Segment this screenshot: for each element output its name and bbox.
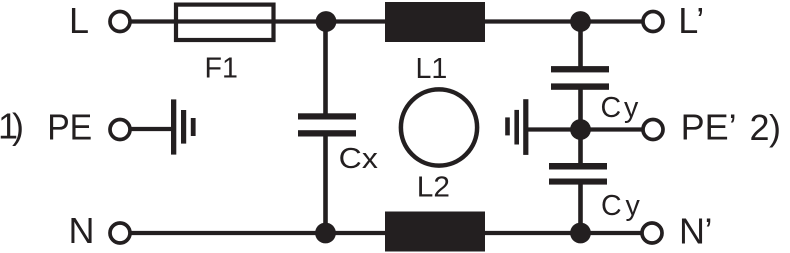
inductor winding L1 bbox=[385, 2, 485, 42]
junction bottom right bbox=[570, 223, 591, 244]
svg-text:): ) bbox=[12, 106, 24, 147]
capacitor Cy lower bbox=[549, 163, 607, 185]
wire Cy branch upper bbox=[578, 22, 583, 68]
wire Cy branch middle bbox=[578, 89, 583, 164]
wire Cx branch lower bbox=[323, 136, 328, 233]
svg-text:y: y bbox=[624, 92, 639, 124]
choke core bbox=[401, 89, 477, 165]
svg-text:N: N bbox=[69, 210, 95, 251]
junction top left bbox=[316, 11, 337, 32]
svg-text:L1: L1 bbox=[416, 53, 448, 85]
terminal N' bbox=[642, 223, 662, 243]
svg-text:): ) bbox=[769, 107, 781, 148]
svg-text:C: C bbox=[601, 190, 622, 222]
svg-text:L’: L’ bbox=[678, 0, 704, 41]
chassis ground left bbox=[171, 99, 196, 154]
junction top right bbox=[570, 11, 591, 32]
terminal PE' bbox=[643, 120, 663, 140]
svg-text:L: L bbox=[69, 0, 89, 41]
junction bottom left bbox=[315, 223, 336, 244]
wire top rail L to L' bbox=[130, 19, 643, 23]
svg-text:y: y bbox=[626, 190, 641, 222]
capacitor Cx bbox=[298, 113, 356, 136]
svg-text:Cx: Cx bbox=[339, 143, 378, 175]
chassis ground right bbox=[505, 99, 528, 155]
svg-text:PE: PE bbox=[47, 106, 92, 147]
wire Cx branch upper bbox=[323, 22, 328, 115]
wire PE stub bbox=[130, 127, 173, 131]
svg-text:’: ’ bbox=[705, 211, 713, 252]
wire Cy branch lower bbox=[578, 184, 583, 233]
svg-text:PE’: PE’ bbox=[681, 107, 737, 148]
fuse F1 bbox=[176, 5, 274, 40]
terminal L' bbox=[643, 12, 663, 32]
inductor winding L2 bbox=[385, 212, 485, 252]
capacitor Cy upper bbox=[551, 66, 609, 90]
svg-text:F1: F1 bbox=[205, 53, 238, 85]
terminal N bbox=[110, 223, 130, 243]
svg-text:N: N bbox=[679, 211, 705, 252]
wire bottom rail N to N' bbox=[130, 231, 642, 235]
svg-text:L2: L2 bbox=[417, 172, 450, 204]
wire PE' branch bbox=[526, 127, 643, 131]
svg-text:C: C bbox=[601, 92, 622, 124]
svg-text:2: 2 bbox=[750, 107, 770, 148]
junction PE' node bbox=[570, 119, 591, 140]
terminal PE bbox=[110, 120, 130, 140]
terminal L bbox=[110, 12, 130, 32]
